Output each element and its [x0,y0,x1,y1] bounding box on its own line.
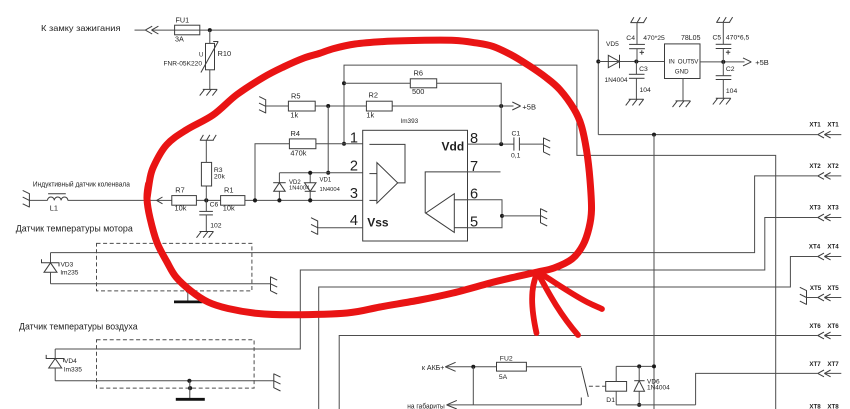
ground at XT5 [800,287,807,304]
label XT7 pair [809,361,839,368]
wire: ignition lock input line [135,29,599,31]
inductor L1 [48,194,68,201]
red leg right [539,273,602,310]
svg-text:C6: C6 [210,202,219,209]
wire: relay bottom rail [616,404,695,406]
svg-text:104: 104 [640,87,652,94]
node: XT1 / main vertical junction [652,133,656,137]
svg-text:2: 2 [350,158,358,174]
svg-text:FU2: FU2 [500,356,513,363]
wire: vertical to lights line [472,367,474,405]
svg-text:GND: GND [675,69,689,76]
op-amp U1 lm393 box [363,130,468,241]
wire: XT6 line [339,336,841,409]
diode VD2 [273,173,286,201]
varistor R10 [201,30,218,89]
svg-text:1: 1 [350,131,358,147]
svg-text:R7: R7 [175,185,184,194]
svg-text:C4: C4 [626,35,635,42]
svg-text:1k: 1k [366,110,374,119]
connector arrow to ignition lock [145,26,158,34]
svg-text:VD1: VD1 [320,178,332,184]
svg-text:Vss: Vss [367,216,389,230]
wire: pin2 line with diode tops [279,172,362,174]
label XT5 pair [810,285,839,292]
ground left of R5 [259,97,266,114]
node: motor shield junction [186,289,190,293]
svg-text:20k: 20k [214,173,226,180]
node: VD1 top junction [308,171,312,175]
capacitor C5 [716,22,732,62]
svg-text:470*25: 470*25 [643,35,665,42]
node: pin1/R4 junction [342,142,346,146]
node: R7/R3/C6 junction [204,198,208,202]
zener VD4 lm335 [46,349,64,381]
svg-text:3A: 3A [175,35,184,44]
svg-text:3: 3 [350,186,358,202]
svg-text:U: U [199,52,203,58]
svg-text:R6: R6 [414,68,423,77]
connector XT6 [818,332,831,339]
diode VD6 [634,366,645,405]
wire: pin4 to ground [318,227,363,229]
svg-text:XT5: XT5 [827,285,839,292]
wire: 78L05 output to +5B [700,61,745,63]
arrow на габариты [447,400,457,409]
ground right of C1 [544,138,551,156]
wire: lights line [447,404,582,406]
ground below R10 [200,89,218,95]
node: C5/C2 junction [721,60,725,64]
diode VD1 [305,173,317,201]
wire: battery feed line [445,366,581,368]
svg-text:104: 104 [726,88,738,95]
wire: vertical from FU1 line down right side [597,30,599,135]
wire: R4 / pin1 line [255,144,363,201]
svg-text:lm335: lm335 [64,366,82,373]
resistor R3 [201,140,211,200]
comparator B triangle [425,172,467,233]
svg-text:FNR-05K220: FNR-05K220 [164,60,203,67]
node: pin5/6 ground junction [500,214,504,218]
svg-text:L1: L1 [50,204,58,213]
capacitor C3 [629,62,645,100]
svg-text:XT1: XT1 [809,122,821,129]
svg-text:OUT5V: OUT5V [678,58,700,65]
svg-text:7: 7 [470,159,478,175]
dashed mechanical link to relay [589,385,606,387]
svg-text:XT1: XT1 [827,122,839,129]
node: FU1 output junction [208,28,212,32]
wire: +5B rail (R5/R2 line) [266,105,514,107]
node: pin8 junction [499,142,503,146]
ground above R3 [200,135,216,140]
diode VD5 [608,55,619,69]
svg-text:4: 4 [350,213,358,229]
svg-text:XT4: XT4 [827,243,839,250]
svg-text:8: 8 [470,131,478,147]
svg-text:XT5: XT5 [810,285,822,292]
resistor R7 [172,196,197,206]
wire: air sensor to XT3 [55,218,841,350]
svg-text:+5B: +5B [755,58,769,67]
red leg down-right [538,274,578,336]
svg-text:C5: C5 [713,35,722,42]
node: VD5 anode junction [596,60,600,64]
svg-text:0,1: 0,1 [511,153,521,160]
svg-text:78L05: 78L05 [681,35,701,42]
svg-text:R10: R10 [218,49,232,58]
svg-text:Индуктивный датчик коленвала: Индуктивный датчик коленвала [33,180,130,188]
svg-text:IN: IN [669,58,675,65]
node: VD2 anode junction [277,198,281,202]
capacitor C1 [514,137,544,150]
wire: relay top rail [616,365,654,367]
connector XT3 [818,214,831,221]
svg-text:XT7: XT7 [809,361,821,368]
svg-text:102: 102 [210,222,222,229]
svg-text:XT7: XT7 [827,361,839,368]
node: VD6 top junction [637,364,641,368]
label XT6 pair [809,323,839,330]
wire: pin5/6 to ground [502,215,541,217]
svg-text:C3: C3 [639,66,648,73]
svg-text:на габариты: на габариты [407,403,444,409]
connector XT1 [818,131,831,138]
capacitor C4 [629,23,645,62]
arrow +5B top [743,58,751,66]
svg-text:D1: D1 [606,397,615,404]
wire: XT5 stub [807,297,842,299]
ground right of air line [274,374,281,392]
arrow +5B middle [512,102,520,110]
node: VD6 bottom junction [637,403,641,407]
svg-text:10k: 10k [175,203,187,212]
svg-text:C2: C2 [726,66,735,73]
resistor R5 [288,101,315,111]
svg-text:VD5: VD5 [606,41,619,48]
resistor R2 [366,101,392,111]
capacitor C6 [199,200,213,231]
svg-text:500: 500 [412,87,424,96]
ground below 78L05 [673,101,691,107]
ground right of motor line [271,277,278,295]
svg-text:к АКБ+: к АКБ+ [422,365,445,372]
svg-text:XT4: XT4 [809,243,821,250]
dashed box air sensor [97,340,255,388]
connector XT7 [818,370,831,377]
wire: R6 feedback line [344,83,501,106]
wire: XT1 line [598,134,841,136]
svg-text:XT3: XT3 [827,205,839,212]
svg-text:XT6: XT6 [827,323,839,330]
svg-text:XT6: XT6 [809,323,821,330]
ground at pin4 [311,218,318,235]
svg-text:FU1: FU1 [176,15,190,24]
svg-text:1N4004: 1N4004 [320,187,341,193]
svg-text:R5: R5 [291,91,300,100]
ground right of pin5 [541,208,548,226]
svg-text:R4: R4 [291,129,300,138]
node: air shield junction [187,379,191,383]
svg-text:1k: 1k [290,110,298,119]
fuse FU2 [497,362,527,371]
wire: main right vertical [653,135,655,409]
label XT8 pair [809,403,839,409]
node: R5/R2 junction [326,104,330,108]
wire: supply line to 78L05 [598,61,664,63]
ground below C3 [626,99,644,105]
wire: pin2 node vertical [327,106,329,173]
capacitor C2 [716,62,732,98]
switch blade (relay contact) [581,368,588,405]
comparator A triangle [369,144,405,203]
svg-text:5A: 5A [499,374,508,381]
label XT3 pair [809,205,839,212]
label XT4 pair [809,243,839,250]
wire: XT7 line [696,373,842,405]
connector XT4 [818,253,831,260]
svg-text:1N4004: 1N4004 [605,77,628,84]
svg-text:C1: C1 [512,131,521,138]
svg-text:XT2: XT2 [827,163,839,170]
wire: +5B to pin8 vertical [500,106,502,144]
wire: motor sensor bottom line [51,283,271,285]
svg-text:Vdd: Vdd [442,139,465,153]
svg-text:1N4004: 1N4004 [647,385,670,392]
svg-text:VD3: VD3 [61,262,74,269]
node: +5B junction [499,104,503,108]
node: C4/C3 junction [634,60,638,64]
svg-text:10k: 10k [223,203,235,212]
wire: pin6/pin5 tie [468,200,503,228]
svg-text:lm235: lm235 [61,270,79,277]
wire: pin8 line [468,143,514,145]
red marker loop annotation [147,40,592,315]
wire: comparator output top loop [344,65,776,409]
connector arrow crank sensor [157,197,163,204]
svg-text:Датчик температуры мотора: Датчик температуры мотора [16,223,134,234]
svg-text:XT3: XT3 [809,205,821,212]
svg-text:XT8: XT8 [809,403,821,409]
wire: 78L05 GND pin [682,79,684,101]
wire: air sensor bottom line [55,380,274,382]
svg-text:К замку зажигания: К замку зажигания [41,23,121,33]
wire: XT4 line [319,257,842,409]
wire: pin3 sensor line [29,199,362,201]
fuse FU1 [175,25,200,35]
connector XT2 [818,173,831,180]
node: VD1 bottom junction [308,198,312,202]
connector XT5 [818,294,831,301]
svg-text:lm393: lm393 [401,118,419,125]
chassis ground in air box [176,381,205,400]
wire: motor sensor to XT2 [51,176,842,253]
svg-text:Датчик температуры воздуха: Датчик температуры воздуха [19,322,138,333]
ground below C6 [197,232,214,238]
resistor R6 [410,79,436,88]
regulator U 78L05 [665,44,701,79]
node: main vertical/relay rail junction [652,364,656,368]
zener VD3 lm235 [42,253,60,284]
svg-text:XT8: XT8 [827,403,839,409]
red leg down [532,273,537,334]
ground above C5 [716,17,732,22]
ground above C4 [630,17,646,22]
resistor R4 [289,139,316,149]
svg-text:R2: R2 [369,91,378,100]
arrow к АКБ+ [445,362,455,371]
label XT2 pair [809,163,839,170]
svg-text:XT2: XT2 [809,163,821,170]
wire: pin7 stub [468,171,501,173]
node: R4 branch junction [253,198,257,202]
node: pin2 line junction [326,171,330,175]
dashed box motor sensor [97,243,252,291]
svg-text:R1: R1 [224,185,233,194]
svg-text:470*6,5: 470*6,5 [726,35,750,42]
svg-text:470k: 470k [290,149,306,158]
svg-text:VD4: VD4 [64,358,77,365]
ground below C2 [713,98,731,104]
node: pin1/R6 junction [342,81,346,85]
svg-text:+5B: +5B [522,103,536,112]
node: air shield junction 2 [188,386,192,390]
ground left of L1 [23,190,30,207]
resistor R1 [221,196,245,206]
node: battery junction [471,365,475,369]
chassis ground in motor box [174,284,202,302]
relay coil D1 [606,366,627,405]
label XT1 pair [809,122,839,129]
